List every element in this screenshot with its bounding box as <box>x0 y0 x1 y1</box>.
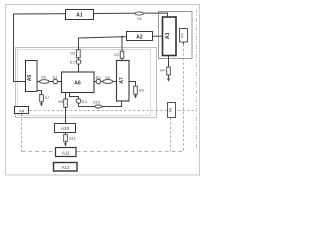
svg-text:S7: S7 <box>44 95 50 100</box>
arrow S7 <box>40 103 43 106</box>
box A6 <box>62 72 95 93</box>
svg-text:S9: S9 <box>139 88 145 93</box>
svg-text:S10: S10 <box>93 100 101 105</box>
wire E4 bottom stub <box>78 103 80 106</box>
terminal E4 <box>76 99 81 104</box>
svg-text:S3: S3 <box>114 52 120 57</box>
svg-text:E3: E3 <box>96 75 102 80</box>
svg-text:A6: A6 <box>74 80 81 86</box>
wire to A5 <box>13 81 26 83</box>
enclosure right unit <box>159 12 193 59</box>
switch S6 <box>103 80 113 84</box>
wire A5 to S7 <box>37 91 42 104</box>
svg-text:S2: S2 <box>70 50 76 55</box>
enclosure inner gray <box>18 50 151 116</box>
svg-text:PA: PA <box>169 107 173 112</box>
component S3 <box>120 51 124 58</box>
svg-text:S8: S8 <box>58 99 64 104</box>
dashed link V2 <box>170 118 172 152</box>
svg-text:A4: A4 <box>19 108 25 113</box>
wire A2 to A3 <box>153 35 163 37</box>
svg-text:S1: S1 <box>137 16 143 21</box>
box PV <box>180 29 188 43</box>
svg-text:PV: PV <box>181 32 185 37</box>
wire A5 to A6 <box>37 81 61 83</box>
wire S2 column to A2 <box>79 37 127 72</box>
svg-text:A1: A1 <box>76 13 83 19</box>
wire top loop <box>14 13 168 82</box>
component S2 <box>77 50 81 58</box>
box A2 <box>127 32 153 41</box>
box PA <box>168 103 176 118</box>
dashed link V1 from A4 <box>21 114 23 152</box>
enclosure outer gray <box>16 48 157 118</box>
box A7 <box>117 61 130 102</box>
svg-text:A5: A5 <box>27 75 33 82</box>
page fold dash-dot line <box>196 9 198 150</box>
component S11 <box>64 134 68 141</box>
terminal E3 <box>96 79 101 84</box>
component S7 <box>40 95 44 102</box>
dashed link H2 bottom right <box>76 151 183 153</box>
svg-text:A10: A10 <box>61 126 70 131</box>
svg-text:A3: A3 <box>165 32 171 39</box>
wire A10 to S11 to A11 <box>65 132 67 143</box>
wire A7 bottom to S10 <box>79 101 122 107</box>
box A4 <box>15 107 29 114</box>
box A1 <box>66 10 94 20</box>
component S8 <box>64 99 68 107</box>
wire S8 column A6 to A10 <box>65 93 67 123</box>
wire A3 to S4 arrow <box>168 56 170 78</box>
svg-text:S11: S11 <box>69 136 77 141</box>
switch S5 <box>40 80 50 84</box>
switch S10 <box>95 105 102 108</box>
dashed link H1 <box>30 110 197 112</box>
svg-text:E1: E1 <box>53 74 59 79</box>
svg-text:S5: S5 <box>41 75 47 80</box>
arrow S4 <box>167 78 170 81</box>
svg-text:A12: A12 <box>61 165 70 170</box>
dashed link H2 bottom left <box>22 151 56 153</box>
wire A6 to A7 <box>94 81 117 83</box>
wire S3 column <box>121 37 123 60</box>
terminal E1 <box>53 79 58 84</box>
svg-text:S4: S4 <box>160 67 166 72</box>
component S9 <box>134 86 138 94</box>
svg-text:A11: A11 <box>62 150 70 155</box>
terminal E2 <box>76 60 81 65</box>
box A11 <box>56 148 77 157</box>
svg-text:A2: A2 <box>136 35 143 41</box>
wire A7 to S9 <box>129 82 135 96</box>
component S4 <box>167 67 171 75</box>
dashed link V3 from PV <box>183 44 185 151</box>
box A10 <box>55 124 76 133</box>
wire E4 to A6 <box>70 93 79 99</box>
arrow S9 <box>134 95 137 98</box>
page border <box>6 5 200 176</box>
stub PV to dashed <box>183 42 185 45</box>
junction dot <box>121 36 123 38</box>
svg-text:A7: A7 <box>119 77 125 84</box>
svg-text:E4: E4 <box>82 99 88 104</box>
switch S1 <box>135 12 144 15</box>
box A5 <box>26 61 38 92</box>
box A3 <box>163 17 177 56</box>
box A12 <box>54 163 78 172</box>
svg-text:E2: E2 <box>70 59 76 64</box>
svg-text:S6: S6 <box>105 75 111 80</box>
arrow S11 <box>64 143 67 146</box>
